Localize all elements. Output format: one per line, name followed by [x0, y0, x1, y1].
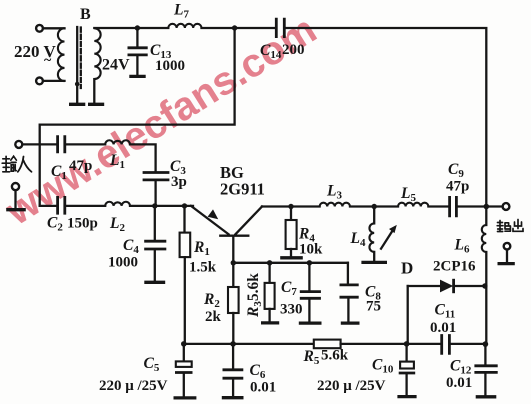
capacitor C2	[58, 196, 65, 215]
node C7 top	[307, 260, 312, 265]
inductor L5	[398, 203, 428, 207]
svg-text:1000: 1000	[155, 58, 185, 74]
svg-text:47p: 47p	[446, 179, 469, 195]
svg-text:1000: 1000	[108, 255, 138, 271]
terminal output ground	[504, 243, 511, 250]
ground (C5)	[174, 396, 197, 399]
capacitor C4	[154, 206, 156, 240]
node base rail left	[231, 260, 236, 265]
resistor R4	[290, 207, 292, 221]
wire primary top	[43, 27, 65, 29]
wire L1 to C3 corner	[130, 144, 156, 171]
ground (C6)	[222, 396, 244, 399]
svg-text:220 μ /25V: 220 μ /25V	[317, 378, 386, 394]
wire feedback from L7 node down and left	[40, 28, 235, 206]
ground (C13)	[129, 75, 145, 78]
wire L3 to L5	[350, 205, 398, 207]
capacitor C3	[143, 173, 170, 180]
terminal input top	[15, 141, 22, 148]
capacitor C9	[450, 196, 457, 217]
node output junction	[484, 204, 490, 210]
ground (C4)	[144, 281, 165, 284]
capacitor C5 electrolytic	[183, 344, 185, 361]
watermark	[0, 7, 324, 234]
wire base rail	[233, 262, 348, 264]
label 输出	[497, 220, 523, 232]
svg-text:150p: 150p	[67, 216, 98, 232]
svg-text:0.01: 0.01	[430, 320, 456, 336]
capacitor C1	[58, 135, 65, 153]
transistor BG 2G911 emitter	[191, 206, 229, 234]
resistor R3	[268, 263, 270, 283]
wire L2 to emitter	[130, 205, 193, 207]
ground (C10)	[397, 395, 416, 398]
svg-text:47p: 47p	[69, 158, 92, 174]
ground (R4)	[280, 256, 303, 259]
ground (core)	[69, 103, 85, 106]
svg-text:0.01: 0.01	[446, 375, 472, 391]
wire C2 row	[40, 205, 57, 207]
wire L5 to C9	[428, 205, 448, 207]
svg-text:3p: 3p	[171, 174, 187, 190]
svg-text:~: ~	[44, 53, 52, 68]
capacitor C11	[442, 334, 450, 355]
diode D 2CP16	[408, 285, 440, 287]
capacitor C13	[136, 28, 138, 46]
svg-text:2k: 2k	[205, 309, 222, 325]
transformer B core	[76, 27, 78, 103]
ground (input)	[14, 190, 16, 208]
inductor L4 (adjustable)	[373, 207, 375, 224]
capacitor C14	[276, 18, 284, 38]
transistor base bar	[220, 235, 248, 237]
resistor R1	[183, 206, 185, 233]
wire C2 to L2	[65, 205, 105, 207]
node C6	[230, 341, 236, 347]
resistor R2	[232, 263, 234, 287]
ground (C7)	[299, 321, 322, 324]
ground (output)	[498, 262, 515, 265]
capacitor C12	[484, 344, 486, 364]
inductor L6	[485, 207, 487, 226]
transformer B secondary winding	[94, 28, 100, 79]
node C10	[404, 341, 410, 347]
wire rail right + right edge down	[284, 28, 486, 206]
svg-text:R35.6k: R35.6k	[245, 273, 264, 318]
terminal 220V bottom	[36, 78, 43, 85]
node R4	[288, 204, 293, 209]
node R1/emitter	[182, 203, 187, 208]
capacitor C6	[232, 344, 234, 369]
resistor R5	[314, 340, 341, 349]
svg-text:75: 75	[366, 299, 381, 315]
ground (secondary)	[88, 103, 104, 106]
transformer B primary winding	[58, 28, 65, 81]
svg-text:220 μ /25V: 220 μ /25V	[99, 378, 168, 394]
wire input to C1	[22, 143, 56, 145]
terminal output	[503, 203, 510, 210]
svg-text:B: B	[80, 6, 91, 23]
wire C9 to output	[458, 205, 503, 207]
svg-text:200: 200	[282, 42, 305, 58]
wire primary bottom	[43, 80, 65, 82]
wire rail to C14	[202, 27, 277, 29]
wire bottom rail	[184, 343, 314, 345]
inductor L7	[168, 24, 201, 28]
transistor collector	[236, 207, 263, 235]
inductor L1	[105, 140, 130, 144]
svg-text:5.6k: 5.6k	[321, 348, 349, 364]
svg-text:0.01: 0.01	[250, 380, 276, 396]
node C13 top	[135, 25, 140, 30]
ground (R3)	[261, 321, 279, 324]
wire top rail	[94, 27, 168, 29]
svg-text:D: D	[401, 259, 413, 278]
terminal input bottom	[12, 183, 19, 190]
ground (L4)	[361, 261, 387, 264]
capacitor C8	[347, 263, 349, 284]
label 输入	[2, 156, 31, 172]
node R3 top	[267, 260, 272, 265]
inductor L2	[105, 202, 130, 206]
svg-text:2CP16: 2CP16	[433, 259, 476, 275]
node C5	[181, 341, 187, 347]
ground (C12)	[476, 395, 497, 398]
svg-text:330: 330	[280, 302, 303, 318]
terminal 220V top	[36, 25, 43, 32]
wire secondary bottom	[93, 79, 95, 102]
svg-text:2G911: 2G911	[220, 180, 265, 199]
wire collector row	[262, 205, 320, 207]
node after L7	[232, 25, 237, 30]
wire C1 to L1	[65, 143, 105, 145]
ground (C8)	[341, 321, 360, 324]
transistor base stem	[232, 237, 234, 263]
node C3/C4	[152, 203, 157, 208]
svg-text:1.5k: 1.5k	[189, 260, 217, 276]
capacitor C10 electrolytic	[405, 344, 407, 362]
inductor L3	[320, 203, 350, 207]
capacitor C7	[308, 263, 310, 290]
svg-text:24V: 24V	[102, 57, 130, 74]
svg-text:10k: 10k	[299, 242, 323, 258]
node L4	[372, 204, 377, 209]
